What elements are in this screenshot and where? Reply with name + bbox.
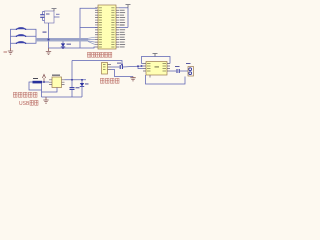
power VCC arrow [42,75,45,83]
ground audio [130,77,135,81]
junction top pin tee [121,64,123,66]
ground symbol power section [43,97,48,103]
text frame 单片主控电路 (red) [87,52,111,57]
push button S1 [12,27,31,30]
wire U2 output [65,79,87,81]
connector J2 body [102,63,108,75]
resistor label R1 [43,32,47,33]
ground under buttons [8,48,13,54]
ground line bottom [42,96,83,98]
junction fuse/U2 [43,81,45,83]
power VCC bar on loop [153,54,158,57]
red text 音频输入 [100,78,119,83]
power VCC bar above box [52,9,57,11]
wire right rail of buttons [31,29,37,43]
U3 bottom pin tick [149,75,151,78]
wire bottom return loop [146,75,186,84]
red text USB接口 [19,100,38,106]
wire mid pin to amp [138,66,143,68]
wire left rail of buttons [11,29,13,48]
capacitor C4 series output [177,69,179,73]
capacitor C2 [70,81,80,97]
power VCC bar top-right [126,5,131,8]
red text 电池连接口 [13,92,37,97]
junction amp input [141,65,143,67]
junction on bus [48,39,50,41]
speaker connector JP1 [186,63,194,76]
wire bottom row into U1 [49,47,96,48]
U3 pins left [143,64,146,72]
IC U1 MCU body [98,5,116,49]
wire stub right of box [54,16,60,18]
J2 pins [108,65,112,70]
U2 pins [49,80,65,85]
wire U3 output [170,70,176,72]
bus from buttons to U1 [36,38,88,41]
wire battery loop [29,82,42,97]
bus entries into U1 [88,37,95,44]
wire box bottom down [48,23,50,48]
U3 pins right [167,64,170,72]
sheet background [0,0,200,113]
U1 right pins [116,8,119,47]
wire rail to pin row [119,26,128,28]
push button S3 [12,41,31,44]
IC U3 amplifier body [146,62,167,76]
LED D2 [80,79,89,97]
net label texts right of U1 pins [120,10,126,48]
junction cap top [71,79,73,81]
wire vertical x80 down [79,28,81,48]
capacitor C3 series [120,65,122,69]
feedback loop wire over U3 [142,57,171,64]
wire J2 mid pin [111,66,120,68]
wire U2 bottom to ground line [42,88,58,93]
component box Y1 [45,11,55,23]
capacitor C1 dark element [40,15,45,17]
wire fuse to U2 [42,81,49,83]
label C3 [117,63,121,64]
wire U1 pin1 to VCC rail [119,7,128,9]
label above fuse [33,78,38,79]
label above output [175,66,180,67]
J2 inner marks [103,64,106,70]
wire loop left of U1 top [80,8,97,27]
U1 left pins [95,8,98,47]
U3 inner text [147,63,166,71]
push button S2 [12,34,31,37]
fuse F1 dark bar [33,81,43,84]
U2 label above [52,75,60,76]
wire vertical right rail [127,8,129,28]
IC U2 regulator body [52,77,62,88]
wire long feed to connector [72,61,122,65]
ground below bottom row [46,48,51,55]
label inside box [46,14,50,15]
LED D1 [61,41,71,48]
svg-text:USB: USB [19,101,30,107]
wire J2 low pin [111,70,133,77]
U1 inner pin-name text rows [99,7,115,47]
